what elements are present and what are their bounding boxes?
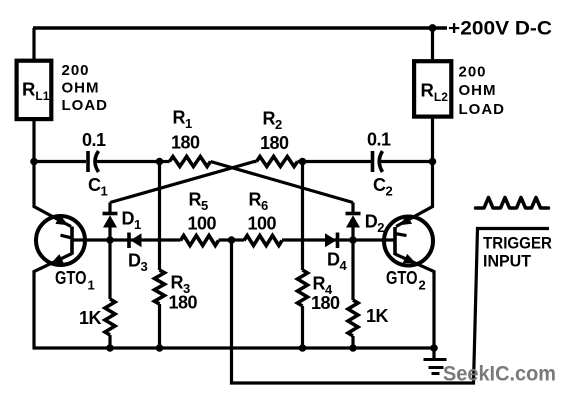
ground — [432, 348, 435, 359]
diode D1 — [108, 203, 111, 213]
wire GTO1 anode from node A — [34, 162, 71, 227]
resistor R4 — [298, 270, 308, 306]
wire cross-coupling diagonal from D1 to R2 — [110, 162, 257, 203]
resistor 1K left — [108, 240, 111, 299]
capacitor C2 — [371, 151, 375, 172]
svg-text:200: 200 — [459, 64, 487, 81]
wire GTO1 cathode to ground rail — [34, 254, 72, 349]
svg-text:200: 200 — [62, 62, 90, 79]
svg-text:180: 180 — [169, 293, 198, 313]
wire node A to C1 — [34, 160, 86, 163]
wire C2 to node D — [381, 160, 433, 163]
wire R4 to ground rail — [301, 306, 304, 348]
svg-text:1K: 1K — [366, 306, 389, 326]
node D junction dot (GTO2 anode column) — [429, 158, 437, 166]
resistor R3 — [155, 270, 165, 304]
node C junction dot (R2/C2/R4) — [299, 158, 307, 166]
node trigger waveform — [476, 198, 549, 209]
wire node B down to R3 — [158, 162, 161, 271]
wire cross-coupling diagonal from R1 to D2 — [211, 162, 354, 203]
svg-text:0.1: 0.1 — [367, 130, 391, 150]
resistor R6 — [244, 236, 282, 246]
wire RL2 bottom to node D — [431, 117, 434, 162]
resistor 1K right — [351, 240, 354, 300]
svg-text:GTO: GTO — [55, 268, 87, 288]
transistor GTO1 — [36, 216, 85, 265]
svg-text:100: 100 — [248, 214, 277, 234]
wire between R5 and R6 — [219, 238, 245, 241]
node trigger junction dot — [228, 236, 236, 244]
svg-text:180: 180 — [311, 293, 340, 313]
wire right column rail to RL2 — [431, 28, 434, 61]
resistor R5 — [181, 236, 219, 246]
svg-text:INPUT: INPUT — [483, 252, 532, 271]
svg-text:TRIGGER: TRIGGER — [483, 234, 552, 253]
svg-text:+200V D-C: +200V D-C — [448, 18, 552, 40]
wire GTO2 anode from node D — [396, 162, 433, 227]
wire node C down to R4 — [301, 162, 304, 271]
capacitor C1 — [86, 151, 90, 172]
svg-text:1: 1 — [88, 278, 95, 293]
wire C1 to node B — [97, 160, 160, 163]
wire left column from rail to RL1 — [32, 28, 35, 61]
svg-text:180: 180 — [260, 133, 289, 153]
node B junction dot (C1/R1/R3) — [156, 158, 164, 166]
wire ground rail — [33, 346, 438, 349]
svg-text:0.1: 0.1 — [82, 130, 106, 150]
svg-text:2: 2 — [419, 278, 426, 293]
wire top +200V rail — [33, 26, 447, 30]
svg-text:180: 180 — [171, 133, 200, 153]
svg-text:OHM: OHM — [62, 79, 100, 96]
svg-text:1K: 1K — [79, 308, 102, 328]
svg-text:SeekIC.com: SeekIC.com — [443, 363, 556, 386]
node gate junction dot D1/1K — [106, 236, 114, 244]
node A junction dot (GTO1 anode column) — [30, 158, 38, 166]
wire R2 to node C — [298, 160, 372, 163]
svg-text:LOAD: LOAD — [62, 97, 109, 114]
svg-text:OHM: OHM — [459, 82, 497, 99]
resistor RL1 — [17, 61, 52, 119]
resistor RL2 — [414, 61, 451, 116]
wire gate line R6 to GTO2 — [282, 238, 395, 241]
node gate junction dot D2/1K — [349, 236, 357, 244]
svg-text:GTO: GTO — [386, 268, 418, 288]
wire GTO2 cathode to ground rail — [395, 254, 434, 348]
diode D4 — [325, 233, 337, 247]
diode D2 — [351, 203, 354, 213]
svg-text:100: 100 — [188, 214, 217, 234]
resistor R2 — [257, 157, 298, 167]
resistor R1 — [160, 160, 170, 163]
node rail junction dots — [106, 344, 114, 352]
wire gate line GTO1 to R5 — [72, 238, 181, 241]
diode D3 — [127, 233, 131, 249]
node +200V junction dot — [429, 24, 437, 32]
svg-text:LOAD: LOAD — [459, 101, 506, 118]
wire trigger loop — [232, 229, 550, 384]
transistor GTO2 — [384, 217, 433, 266]
wire RL1 bottom to node A — [32, 119, 35, 162]
wire R3 to ground rail — [158, 304, 161, 348]
